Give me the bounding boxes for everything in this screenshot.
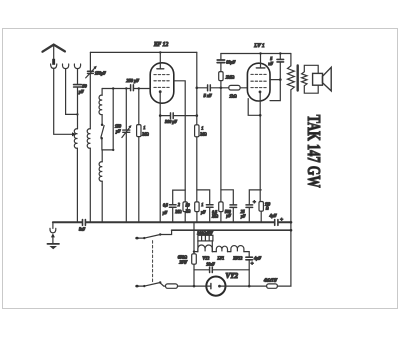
- wire coil L4 feed: [101, 150, 103, 162]
- svg-text:Ω: Ω: [266, 206, 269, 210]
- wire LV1 screen to cap column: [270, 79, 280, 81]
- coil L1: [74, 129, 77, 149]
- wire 50k bottom to bus: [196, 212, 198, 222]
- terminal socket 2: [62, 64, 68, 69]
- heater VY2: [198, 245, 212, 252]
- LV1 grid g1: [251, 80, 267, 82]
- node line2 right column: [290, 229, 293, 232]
- VY2 cathode dot: [218, 285, 221, 288]
- wire rail right column upper: [196, 52, 198, 124]
- wire L4 to bus: [101, 181, 103, 221]
- wire speaker loop bottom: [304, 85, 318, 93]
- resistor R1 1MOhm: [137, 125, 141, 137]
- anode feed column P2 rail: [197, 190, 210, 205]
- wire 300 right leg: [211, 241, 213, 252]
- resistor 110 Ohm: [259, 202, 263, 212]
- wire switch to jog: [102, 139, 113, 150]
- wire bus to heater column: [193, 222, 195, 254]
- svg-text:+: +: [250, 262, 253, 267]
- ground plug arrow: [51, 233, 55, 237]
- capacitor 10nF: [194, 269, 209, 271]
- svg-text:EF 12: EF 12: [153, 42, 168, 48]
- switch S2a: [159, 233, 161, 235]
- node anode rail: [259, 52, 261, 54]
- svg-text:VY2: VY2: [226, 272, 239, 280]
- svg-text:250 pF: 250 pF: [126, 78, 139, 83]
- capacitor 500uF: [230, 205, 237, 208]
- node anode tee: [159, 51, 161, 53]
- wire 5nF2 down and to tube: [270, 62, 280, 100]
- heater LV1: [216, 246, 227, 251]
- transformer core: [297, 66, 299, 91]
- svg-text:5 nF: 5 nF: [204, 93, 212, 98]
- heater chain wire: [194, 251, 198, 253]
- EF12 grid g1: [154, 86, 171, 88]
- wire 1uF bottom to bus: [209, 208, 211, 222]
- LV1 top rail: [221, 53, 291, 55]
- resistor 4kOhm 1W: [267, 284, 278, 288]
- wire 1M R1 top: [138, 89, 140, 125]
- resistor 0,5MOhm: [219, 202, 223, 212]
- wire switch to fuse: [160, 283, 165, 286]
- svg-text:MΩ: MΩ: [141, 131, 148, 136]
- wire trimmer to bus: [125, 133, 127, 222]
- svg-text:25: 25: [241, 210, 245, 214]
- svg-text:pF: pF: [115, 129, 121, 134]
- svg-text:25W: 25W: [179, 260, 187, 265]
- wire rail corner to primary: [290, 54, 292, 66]
- wire 300 left leg: [197, 241, 199, 252]
- svg-text:2MΩ: 2MΩ: [226, 74, 235, 79]
- node coupling junction: [196, 87, 199, 90]
- VY2 filament: [206, 285, 211, 287]
- speaker cone: [323, 67, 332, 91]
- wire 2M to bus: [184, 212, 186, 222]
- node 1M tap: [138, 87, 140, 89]
- capacitor 0,5uF: [169, 205, 176, 207]
- antenna: [43, 45, 65, 69]
- svg-text:80µF: 80µF: [226, 60, 236, 65]
- wire L3 to switch: [101, 115, 103, 124]
- svg-text:4kΩ/1W: 4kΩ/1W: [264, 277, 278, 282]
- EF12 grid g3: [154, 74, 171, 76]
- svg-text:2: 2: [178, 203, 180, 207]
- svg-text:MΩ: MΩ: [174, 210, 181, 214]
- wire L2 to bus: [89, 148, 91, 221]
- wire 80uF to 2M: [220, 63, 222, 72]
- svg-text:µF: µF: [226, 214, 231, 218]
- trimmer capacitor 150pF: [123, 130, 130, 132]
- svg-text:nF: nF: [268, 61, 273, 66]
- wire L1 to bus: [76, 148, 78, 221]
- wire terminal2 to coil L1 top: [66, 69, 78, 115]
- fuse: [166, 284, 178, 288]
- wire 650 to mains junction: [193, 264, 195, 286]
- node 650 bottom: [193, 285, 196, 288]
- wire 1k to LV1 grid: [240, 87, 247, 89]
- resistor 50kOhm: [195, 202, 199, 212]
- switch link: [152, 241, 154, 282]
- svg-text:1: 1: [201, 125, 203, 130]
- wire R2 down to 50k: [196, 137, 198, 202]
- heater EF12: [231, 246, 244, 252]
- EF12 grid g2: [154, 80, 171, 82]
- svg-text:300 pF: 300 pF: [165, 119, 177, 124]
- svg-text:4µF: 4µF: [270, 213, 278, 218]
- top rail EF12: [90, 51, 196, 53]
- capacitor 5nF tone: [277, 59, 284, 62]
- capacitor 4uF heater: [246, 257, 253, 260]
- node heater chain tap: [193, 250, 195, 252]
- output transformer T1 primary: [288, 66, 295, 90]
- svg-text:300Ω/5W: 300Ω/5W: [197, 230, 213, 235]
- EF12 cathode: [159, 90, 162, 93]
- wire 500uF to bus: [232, 208, 234, 222]
- wire primary down right column: [290, 90, 292, 286]
- wire VY2 out: [220, 285, 267, 287]
- LV1 anode: [256, 67, 265, 69]
- coil L4: [99, 162, 102, 182]
- speaker magnet: [313, 73, 323, 85]
- svg-text:150pF: 150pF: [95, 71, 106, 76]
- band switch S1: [101, 124, 104, 127]
- heater link 1: [212, 251, 216, 253]
- capacitor 5nF: [208, 85, 211, 91]
- ground symbol: [47, 243, 59, 245]
- LV1 cathode: [259, 91, 262, 94]
- transformer secondary: [302, 72, 307, 86]
- svg-text:1kΩ: 1kΩ: [229, 93, 236, 98]
- node jog/column: [112, 149, 114, 151]
- wire 10nF right: [213, 269, 249, 271]
- heater chain right: [244, 252, 249, 257]
- node rail cap tee: [279, 52, 281, 54]
- node cathode link: [159, 114, 162, 117]
- wire 300pF to column: [174, 115, 197, 117]
- node trimmer tap: [125, 87, 127, 89]
- capacitor 300pF: [171, 113, 174, 119]
- resistor 2MOhm screen: [183, 202, 187, 212]
- terminal socket 3: [74, 64, 80, 69]
- svg-text:+: +: [253, 201, 256, 206]
- chassis bus middle: [86, 221, 274, 223]
- wire rail to 5nF2: [279, 54, 281, 60]
- svg-text:1: 1: [201, 203, 203, 207]
- node column tap: [112, 87, 114, 89]
- P3 rail: [221, 190, 233, 205]
- node bus right column: [290, 221, 293, 224]
- svg-text:VY2: VY2: [202, 255, 209, 260]
- rectifier VY2: [206, 277, 225, 296]
- capacitor 5nF ground: [83, 220, 86, 226]
- wire variable cap to coil L2: [89, 74, 91, 129]
- wire speaker loop top: [304, 65, 318, 73]
- svg-text:MΩ: MΩ: [211, 215, 218, 219]
- node 4uF junction: [248, 285, 251, 288]
- wire 4uF to VY2 wire: [248, 260, 250, 286]
- node 300pF junction: [196, 114, 199, 117]
- svg-text:1: 1: [143, 125, 145, 130]
- wire LV1 grid bracket: [248, 99, 260, 116]
- capacitor 1uF: [206, 205, 213, 207]
- P1 rail screen: [173, 190, 186, 205]
- wire 50pF to coil L1: [77, 87, 79, 129]
- mains pin 2: [137, 285, 144, 287]
- wire top rail to variable capacitor: [89, 52, 91, 70]
- wire antenna to coil tap: [54, 68, 73, 134]
- svg-text:µF: µF: [163, 211, 168, 215]
- tube EF12: [150, 63, 174, 103]
- wire 2M to junction and down: [220, 81, 222, 202]
- mains pin 1: [137, 237, 144, 239]
- svg-text:4µF: 4µF: [254, 256, 262, 261]
- mains line 2: [172, 229, 291, 231]
- tap arrowhead: [72, 132, 76, 136]
- wire 0,5M to bus: [220, 212, 222, 222]
- svg-text:TAK 147 GW: TAK 147 GW: [304, 115, 324, 188]
- coil L3: [99, 95, 102, 115]
- switch S2b: [159, 281, 161, 283]
- variable capacitor 150pF: [88, 71, 94, 73]
- capacitor 250pF: [131, 85, 134, 91]
- wire grid line (right of 250pF): [134, 88, 150, 90]
- node grid leak junction: [220, 87, 223, 90]
- resistor 1kOhm: [229, 85, 240, 90]
- resistor 300 Ohm 5W: [198, 235, 213, 241]
- chassis bus right: [279, 221, 292, 223]
- svg-text:LV1: LV1: [217, 255, 225, 260]
- wire grid line down column: [112, 89, 114, 150]
- wire coupling 5nF left: [197, 87, 207, 89]
- P4 rail: [249, 190, 261, 205]
- LV1 grid g1 dash low: [251, 87, 267, 89]
- wire trimmer column top: [125, 89, 127, 130]
- coil L2: [87, 129, 90, 149]
- wire riser to switch: [161, 230, 172, 234]
- wire 4k to right column: [277, 285, 291, 287]
- wire terminal3 down: [77, 69, 79, 85]
- resistor R2 1MOhm: [195, 125, 199, 137]
- svg-text:MΩ: MΩ: [199, 132, 206, 137]
- wire cathode 300pF link: [160, 115, 170, 117]
- svg-text:µF: µF: [241, 214, 246, 218]
- svg-text:5nF: 5nF: [79, 228, 86, 232]
- capacitor 50pF: [74, 85, 82, 87]
- svg-text:LV 1: LV 1: [253, 43, 265, 49]
- node: terminal2 junction: [76, 113, 78, 115]
- resistor 2MOhm: [219, 72, 223, 81]
- capacitor 80uF: [217, 60, 224, 63]
- wire 5nF to 1k: [211, 87, 229, 89]
- resistor 650 Ohm 25W: [192, 254, 197, 264]
- ground socket: [50, 228, 56, 232]
- ground drop: [52, 222, 54, 228]
- tube LV1: [247, 63, 270, 101]
- capacitor 4uF bus: [275, 220, 278, 226]
- wire rail to 80uF: [220, 54, 222, 60]
- wire fuse to VY2: [178, 285, 207, 287]
- wire 110 to bus: [260, 211, 262, 221]
- wire EF12 screen to column: [174, 81, 185, 190]
- chassis bus: [53, 221, 82, 223]
- node bracket cathode: [259, 114, 262, 117]
- EF12 anode: [157, 68, 164, 70]
- wire 25uF to bus: [248, 208, 250, 222]
- svg-text:EF12: EF12: [232, 255, 242, 260]
- svg-text:pF: pF: [78, 89, 84, 94]
- heater link 2: [228, 251, 231, 253]
- wire 1M R1 to bus: [138, 137, 140, 222]
- wire grid line corner to coil L3: [101, 89, 103, 96]
- node screen cap: [279, 78, 282, 81]
- svg-text:10nF: 10nF: [206, 261, 215, 266]
- capacitor 25uF: [246, 205, 253, 208]
- wire grid line (left of 250pF): [102, 88, 130, 90]
- wire 0,5uF to bus: [172, 208, 174, 222]
- LV1 grid g2: [251, 73, 267, 75]
- svg-text:µF: µF: [201, 211, 206, 215]
